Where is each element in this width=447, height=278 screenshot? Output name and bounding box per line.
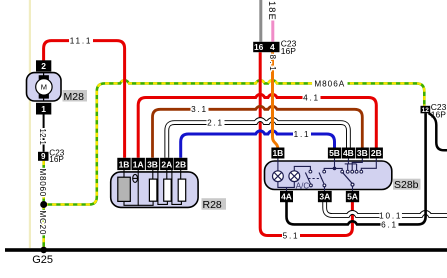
svg-text:MC20: MC20	[38, 211, 47, 236]
svg-text:M28: M28	[64, 91, 85, 103]
3A switch arm	[319, 173, 326, 187]
label 6.1	[381, 220, 399, 229]
pin R28 1B	[117, 158, 130, 170]
pin R28 3B	[146, 158, 159, 170]
A/C switch arm	[305, 173, 312, 187]
pin S28b 5A	[346, 191, 359, 202]
motor pin 2	[36, 60, 51, 71]
label 4.1	[303, 93, 321, 102]
svg-text:4A: 4A	[281, 192, 292, 202]
svg-text:10.1: 10.1	[379, 212, 402, 221]
svg-text:1.1: 1.1	[294, 130, 311, 139]
S28b block body	[265, 161, 392, 190]
R28 block body	[111, 172, 198, 208]
connector C23 pins 16/4	[253, 42, 279, 52]
label R28	[202, 198, 227, 211]
node at 5B	[333, 167, 337, 171]
label 2.1	[207, 118, 225, 127]
pink wire 18E	[271, 21, 274, 42]
label MC20 (rotated)	[38, 211, 47, 236]
svg-text:16P: 16P	[49, 155, 64, 164]
svg-text:11.1: 11.1	[70, 37, 93, 46]
svg-text:5A: 5A	[347, 192, 358, 202]
svg-text:18E: 18E	[267, 1, 277, 21]
resistor element 2	[149, 179, 157, 201]
svg-text:12.1: 12.1	[38, 129, 47, 146]
pin S28b 2B	[370, 148, 383, 159]
lamp L2 (illumination)	[289, 171, 300, 182]
label 3.1	[191, 105, 209, 114]
wire 2.1 (white, R28/2A to S28b/4B)	[167, 120, 349, 158]
svg-text:M8060: M8060	[38, 169, 47, 198]
svg-text:2: 2	[41, 61, 46, 71]
svg-text:R28: R28	[203, 199, 222, 211]
wire 6.1 (black, S28b/4A to C23/12)	[287, 113, 426, 224]
wire 3.1 (brown, R28/3B to S28b/3B)	[153, 106, 363, 158]
junction node at ground bus	[40, 247, 47, 254]
label 11.1	[69, 36, 93, 45]
pin R28 2B	[174, 158, 187, 170]
S28b internal wires	[278, 159, 376, 192]
pin S28b 1B	[271, 148, 284, 159]
pin R28 1A	[132, 158, 145, 170]
svg-text:16P: 16P	[281, 46, 296, 56]
wire 12.1 (black, M28/1 to C23/9)	[43, 115, 45, 152]
wire from C23/16 + wire 5.1 (red, to S28b/5A)	[260, 52, 352, 235]
pin S28b 3A	[318, 191, 332, 202]
label S28b	[393, 179, 421, 192]
theta symbol	[133, 174, 138, 182]
motor M28 body	[27, 73, 62, 101]
junction node M8060/MC20/M806A	[40, 201, 47, 208]
svg-text:1B: 1B	[119, 160, 130, 170]
svg-text:16: 16	[254, 42, 264, 52]
svg-text:3A: 3A	[319, 192, 330, 202]
wire MC20 (green/yellow)	[42, 205, 45, 250]
svg-text:4: 4	[270, 42, 275, 52]
svg-text:5.1: 5.1	[283, 232, 300, 241]
svg-text:9: 9	[41, 152, 46, 161]
pin S28b 3B	[356, 148, 369, 159]
lamp L1 (A/C indicator)	[273, 171, 284, 182]
pin S28b 4B	[342, 148, 355, 159]
faint fold line	[29, 0, 31, 248]
svg-text:G25: G25	[32, 254, 53, 266]
motor pin 1	[36, 103, 51, 115]
svg-text:4B: 4B	[343, 148, 354, 158]
connector C23 pin 9	[38, 152, 49, 161]
svg-text:3B: 3B	[147, 160, 158, 170]
wire 4.1 (red, R28/1A to S28b/2B)	[138, 94, 376, 157]
wire 1.1 (blue, R28/2B to S28b/5B)	[181, 131, 335, 158]
svg-text:1B: 1B	[272, 148, 283, 158]
wire 10.1 (white, S28b/3A to right edge)	[325, 202, 447, 216]
svg-text:M806A: M806A	[314, 79, 345, 88]
label 18E (rotated)	[267, 1, 277, 21]
svg-text:8.1: 8.1	[268, 55, 277, 74]
svg-text:5B: 5B	[329, 148, 340, 158]
wire M8060 (green/yellow)	[42, 161, 45, 205]
wire M806A (green/yellow, junction to C23 pin 12)	[44, 80, 425, 204]
wire 11.1 (red, M28/2 to R28/1B)	[44, 41, 125, 158]
resistor R28 thermal element	[118, 177, 131, 201]
label M806A	[312, 79, 348, 88]
svg-text:2B: 2B	[175, 160, 186, 170]
svg-text:3.1: 3.1	[191, 105, 208, 114]
svg-text:M: M	[41, 83, 47, 92]
svg-text:2.1: 2.1	[207, 118, 224, 127]
pin R28 2A	[160, 158, 173, 170]
label 1.1	[293, 130, 311, 139]
resistor element 4	[178, 179, 186, 201]
svg-text:1A: 1A	[133, 160, 144, 170]
pin S28b 5B	[328, 148, 341, 159]
R28 internal wires	[124, 170, 181, 205]
5A wiper arm	[342, 172, 354, 186]
label 5.1	[282, 231, 300, 240]
label 10.1	[379, 211, 402, 220]
svg-text:6.1: 6.1	[381, 220, 398, 229]
wire 8.1 (orange, C23/4 to S28b/1B)	[273, 52, 278, 149]
connector C23 pin 12	[421, 106, 431, 114]
label M8060 (rotated)	[38, 169, 47, 198]
svg-text:A/C: A/C	[296, 181, 310, 190]
gray wire above C23	[259, 0, 262, 42]
svg-text:12: 12	[422, 107, 430, 114]
pin S28b 4A	[280, 191, 293, 202]
svg-text:2A: 2A	[161, 160, 172, 170]
label M28	[63, 90, 88, 103]
svg-text:3B: 3B	[357, 148, 368, 158]
black wire C23/12 to right edge	[429, 113, 447, 150]
svg-text:1: 1	[41, 104, 46, 114]
svg-text:16P: 16P	[431, 110, 446, 120]
label 12.1 (rotated)	[38, 129, 47, 146]
svg-text:2B: 2B	[371, 148, 382, 158]
switch fixed contacts	[309, 170, 363, 173]
label 8.1 (rotated)	[268, 55, 277, 74]
mechanical link	[308, 178, 321, 180]
svg-text:S28b: S28b	[394, 179, 419, 191]
ground bus G25	[5, 248, 447, 252]
resistor element 3	[164, 179, 172, 201]
svg-text:4.1: 4.1	[303, 93, 320, 102]
